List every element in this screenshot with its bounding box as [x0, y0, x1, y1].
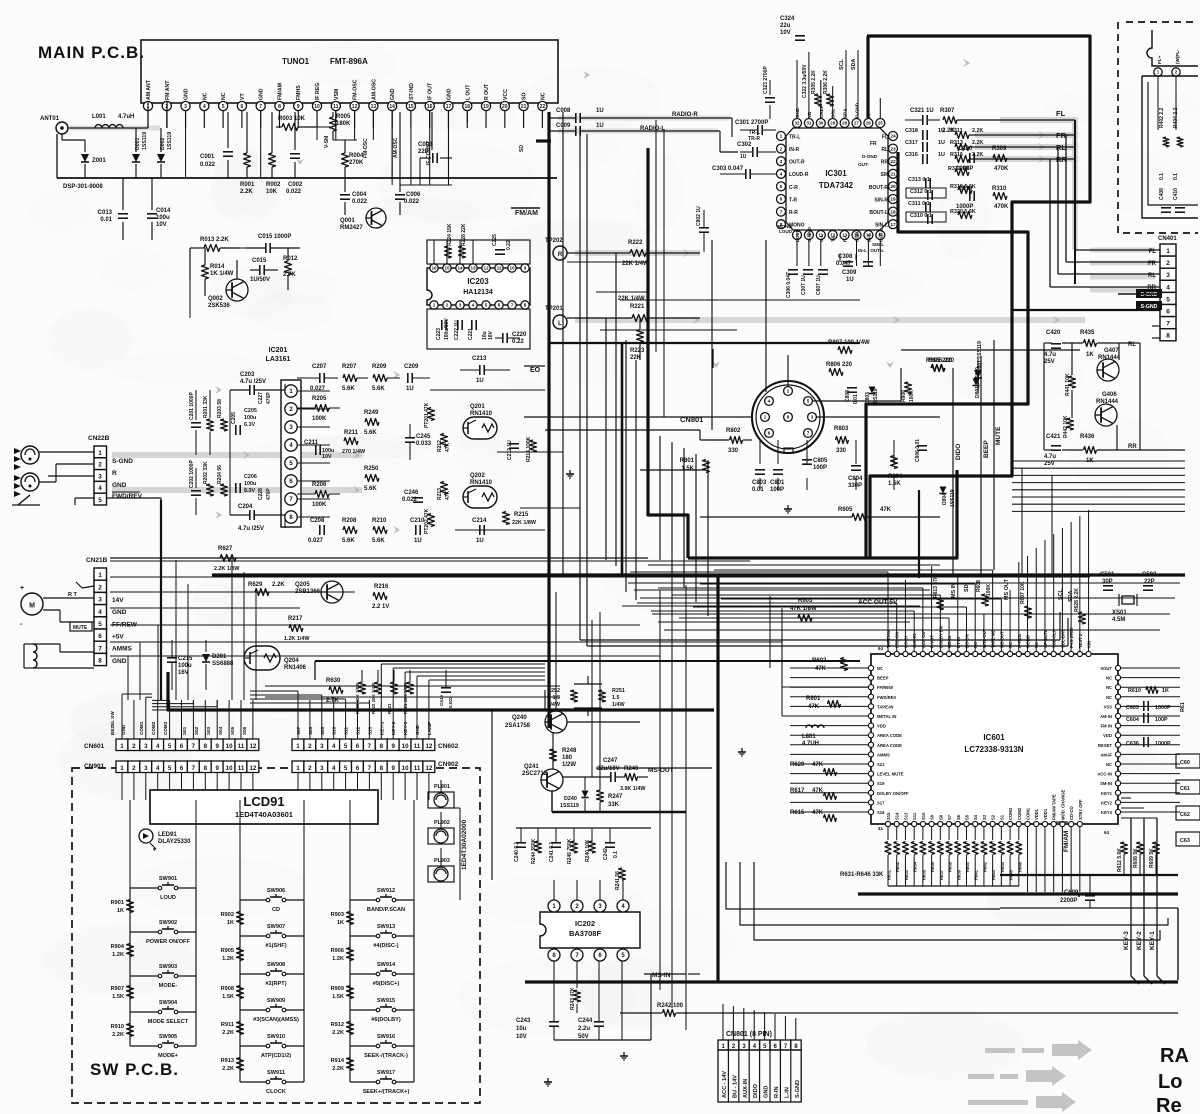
svg-text:Z001: Z001 — [92, 158, 106, 164]
svg-text:S19: S19 — [877, 781, 885, 786]
svg-text:COM2: COM2 — [1017, 807, 1022, 820]
svg-text:Re: Re — [1156, 1095, 1182, 1114]
IC202 pin 8 — [548, 949, 560, 961]
capacitor C302 1U — [752, 147, 754, 157]
svg-text:NC: NC — [1106, 762, 1112, 767]
wire CN901 to switch rails — [129, 800, 131, 888]
svg-text:5: 5 — [1166, 296, 1170, 303]
svg-text:FM/AM: FM/AM — [515, 210, 538, 217]
svg-text:S16: S16 — [877, 810, 885, 815]
svg-text:5: 5 — [344, 765, 348, 772]
highlight arrows misc — [583, 71, 590, 79]
IC203 pin 7 — [508, 301, 516, 309]
inductor L801 4.7UH — [806, 725, 824, 728]
svg-text:1.5K: 1.5K — [888, 481, 901, 487]
resistor R911 2.2K — [237, 1022, 244, 1035]
svg-text:FR: FR — [1056, 131, 1067, 140]
capacitor C015 1000P — [265, 243, 267, 253]
IC601 bottom pin S6 — [955, 821, 960, 826]
capacitor C309 1U — [843, 261, 853, 263]
svg-text:14V: 14V — [112, 597, 124, 604]
svg-text:100K: 100K — [312, 502, 327, 508]
capacitor C214 1U — [479, 525, 481, 535]
wire thick trunk y558 — [688, 470, 957, 558]
IC301 pin 21 — [889, 169, 898, 178]
wire CN602 riser elbows — [297, 691, 299, 700]
svg-text:GND: GND — [390, 88, 396, 100]
IC301 pin 4 LOUD-R — [777, 169, 786, 178]
resistor R014 1K 1/4W — [202, 265, 209, 279]
svg-text:24: 24 — [890, 134, 896, 140]
svg-text:R012: R012 — [283, 256, 298, 262]
diode D801 1SS119 — [973, 379, 980, 386]
svg-text:FM/AM TAPE: FM/AM TAPE — [1052, 794, 1057, 820]
resistor R628 2.2K — [1079, 612, 1086, 624]
svg-text:2.7K: 2.7K — [283, 272, 296, 278]
capacitor C213 1U — [479, 365, 481, 375]
svg-text:2: 2 — [308, 765, 312, 772]
CN801 pin 3 — [808, 413, 817, 422]
wire MS lines bottom — [644, 973, 686, 975]
IC301 pin 32 — [793, 119, 802, 128]
capacitor C247 22u/10V — [610, 772, 612, 782]
capacitor C241 0.1 — [551, 842, 561, 844]
svg-text:1/2W: 1/2W — [562, 762, 576, 768]
svg-text:1.2K: 1.2K — [112, 952, 124, 958]
lamp PL901 — [428, 792, 454, 808]
svg-text:IN-R: IN-R — [789, 147, 800, 153]
IC203 pin 9 — [521, 264, 529, 272]
svg-text:2.2K: 2.2K — [332, 1066, 344, 1072]
capacitor C220 0.22 — [502, 333, 504, 343]
svg-text:IF REG: IF REG — [315, 83, 321, 100]
capacitor C015 1u/50V — [259, 265, 261, 275]
svg-text:12: 12 — [249, 743, 256, 750]
IC601 bottom pin S8 — [938, 821, 943, 826]
svg-text:R003 10K: R003 10K — [278, 116, 306, 122]
resistor R242 100 — [663, 1010, 676, 1017]
svg-text:16V: 16V — [488, 330, 494, 340]
wire RL — [969, 146, 1075, 148]
capacitor C209 1U — [407, 373, 409, 383]
svg-text:R61: R61 — [1180, 702, 1186, 712]
svg-text:2: 2 — [132, 765, 136, 772]
svg-text:9: 9 — [215, 765, 219, 772]
capacitor C308 0.047 — [863, 261, 873, 263]
IC601 bottom pin S5 — [964, 821, 969, 826]
svg-text:C408: C408 — [1159, 188, 1165, 200]
switch SW904 MODE SELECT — [130, 1011, 160, 1013]
svg-text:0.033: 0.033 — [416, 441, 432, 447]
svg-text:R013 2.2K: R013 2.2K — [200, 237, 229, 243]
resistor R223 22K — [637, 330, 644, 343]
svg-text:R: R — [558, 252, 563, 258]
capacitor C212 1U — [509, 443, 519, 445]
svg-text:C636: C636 — [1126, 741, 1139, 747]
wires into CN401 — [1075, 249, 1160, 251]
svg-text:R642: R642 — [982, 861, 987, 872]
svg-text:R441 10K: R441 10K — [1065, 373, 1071, 396]
svg-text:KEY1: KEY1 — [1101, 791, 1113, 796]
svg-text:4: 4 — [332, 765, 336, 772]
svg-text:C214: C214 — [472, 518, 487, 524]
svg-text:R620: R620 — [790, 762, 805, 768]
svg-text:R240 10K: R240 10K — [585, 839, 591, 862]
resistor R807 100 1/4W — [838, 347, 852, 354]
svg-text:2: 2 — [98, 462, 102, 469]
svg-text:S01: S01 — [182, 726, 187, 735]
wire caps under CN801 — [759, 440, 761, 464]
svg-text:BOUT-R: BOUT-R — [869, 185, 889, 191]
capacitor C805 100P — [802, 459, 812, 461]
resistor R306 2.2K — [827, 94, 834, 106]
IC203 pin 1 — [430, 301, 438, 309]
resistor R821 10K 1/8W — [391, 682, 398, 694]
svg-text:11: 11 — [497, 266, 502, 271]
IC601 left pin METAL IN — [868, 713, 873, 718]
capacitor C801 100P — [773, 469, 783, 471]
svg-text:C307 1U: C307 1U — [801, 275, 807, 295]
svg-text:FM IN: FM IN — [1101, 724, 1112, 729]
IC601 top pin CO-DI — [903, 651, 908, 656]
svg-text:1: 1 — [98, 572, 102, 579]
tuner pin 8 FM/AM — [275, 101, 284, 110]
IC301 pin 10 — [804, 231, 813, 240]
IC601 top pin ACC OUT — [920, 651, 925, 656]
wire upper middle horizontals — [567, 261, 648, 263]
tuner pin 11 VSM — [331, 101, 340, 110]
capacitor C319 1000P + resistor R310 470K — [969, 191, 971, 201]
svg-text:FL+: FL+ — [1157, 55, 1162, 64]
wire KEY verticals — [1130, 818, 1132, 976]
IC601 right pin NC — [1115, 675, 1120, 680]
svg-text:1U: 1U — [476, 538, 484, 544]
svg-text:FL: FL — [1056, 109, 1066, 118]
capacitor C004 0.022 — [344, 185, 346, 192]
IC601 left pin AREA CODE — [868, 733, 873, 738]
tuner pin 13 AM-OSC — [369, 101, 378, 110]
svg-text:25: 25 — [878, 121, 883, 126]
svg-text:29: 29 — [830, 121, 835, 126]
resistor R222 22K 1/4W — [630, 250, 646, 257]
svg-text:FM-OSC: FM-OSC — [363, 138, 369, 158]
IC202 pin 6 — [594, 949, 606, 961]
svg-text:SD: SD — [519, 145, 525, 152]
IC601 left pin TAPE-IN — [868, 704, 873, 709]
svg-text:C316: C316 — [905, 152, 918, 158]
IC301 pin 23 — [889, 144, 898, 153]
svg-text:2.2K: 2.2K — [972, 128, 983, 134]
svg-text:CN801: CN801 — [680, 415, 703, 424]
svg-text:SW905: SW905 — [159, 1034, 177, 1040]
svg-text:1.5: 1.5 — [612, 695, 620, 701]
svg-text:12: 12 — [352, 104, 358, 110]
svg-text:R639: R639 — [956, 869, 961, 880]
svg-text:SW916: SW916 — [377, 1034, 395, 1040]
svg-text:SW913: SW913 — [377, 924, 395, 930]
svg-text:R633: R633 — [904, 869, 909, 880]
svg-text:1U: 1U — [938, 140, 945, 146]
highlight route antenna — [70, 126, 160, 131]
svg-text:R612 5.6K: R612 5.6K — [1117, 848, 1123, 872]
svg-text:2: 2 — [787, 389, 790, 394]
wire IC201 pin stubs right — [297, 390, 330, 392]
svg-text:C242: C242 — [603, 848, 609, 860]
resistor R204 56 — [221, 484, 228, 496]
switch SW901 LOUD — [130, 887, 160, 889]
resistor R003 10K — [282, 124, 298, 131]
net S-GND inverted labels — [1136, 289, 1162, 298]
wire FWD/REV thick vertical — [160, 500, 162, 700]
svg-text:22: 22 — [540, 104, 546, 110]
amp inner box — [1142, 76, 1198, 218]
svg-text:FWD/REV: FWD/REV — [112, 493, 143, 500]
svg-text:EO: EO — [530, 367, 541, 374]
svg-text:SW910: SW910 — [267, 1034, 285, 1040]
svg-text:Q240: Q240 — [512, 715, 527, 721]
switch SW912 BAND/P.SCAN — [350, 899, 378, 901]
IC601 right pin XOUT — [1115, 665, 1120, 670]
diode D001 1SS119 — [135, 128, 137, 152]
svg-text:1U: 1U — [414, 538, 422, 544]
svg-text:C207: C207 — [312, 364, 327, 370]
wire Q240 column — [552, 733, 554, 769]
svg-text:R241 56: R241 56 — [615, 871, 621, 890]
IC601 bottom pin COM2 — [1016, 821, 1021, 826]
wire R627 line thin — [110, 557, 648, 559]
svg-text:RN1410: RN1410 — [470, 480, 493, 486]
svg-text:C228: C228 — [258, 488, 264, 500]
IC601 top pin MB-IN — [946, 651, 951, 656]
svg-text:IC301: IC301 — [825, 169, 847, 178]
wire thick RR elbow — [866, 152, 1028, 557]
IC601 top pin VOL-CLK — [1051, 651, 1056, 656]
svg-text:R217: R217 — [288, 616, 303, 622]
svg-text:C604: C604 — [1126, 717, 1139, 723]
svg-text:3: 3 — [780, 159, 783, 165]
svg-text:C322 3.3u/50V: C322 3.3u/50V — [802, 64, 808, 98]
svg-text:SO: SO — [522, 93, 528, 101]
IC301 pin 13 — [840, 231, 849, 240]
right edge C6xx connector stubs — [1176, 754, 1200, 768]
IC601 left pin FWD/REV — [868, 694, 873, 699]
svg-text:#1(SHF): #1(SHF) — [265, 943, 286, 949]
switch SW911 CLOCK — [240, 1081, 268, 1083]
wire IC601 bottom right pin drops — [1027, 827, 1029, 892]
svg-text:2: 2 — [1166, 260, 1170, 267]
svg-text:C220: C220 — [512, 332, 527, 338]
svg-text:32: 32 — [795, 121, 800, 126]
svg-text:21: 21 — [890, 172, 896, 178]
svg-text:SDA: SDA — [843, 108, 848, 118]
svg-text:23: 23 — [890, 146, 896, 152]
svg-text:S10: S10 — [921, 812, 926, 820]
amp pin 1 FL+ — [1154, 68, 1162, 76]
IC601 top pin TAPE/AM — [885, 651, 890, 656]
svg-text:NC: NC — [1106, 685, 1112, 690]
ground near CN801 — [787, 505, 789, 509]
svg-text:5.6K: 5.6K — [364, 486, 377, 492]
svg-text:COM3: COM3 — [1008, 807, 1013, 820]
IC601 right pin KEY3 — [1115, 809, 1120, 814]
resistor R441 10K — [1069, 376, 1076, 388]
svg-text:R641: R641 — [974, 869, 979, 880]
svg-text:1SS119: 1SS119 — [142, 132, 148, 150]
svg-text:S15: S15 — [886, 812, 891, 820]
resistor R913 2.2K — [237, 1058, 244, 1071]
svg-text:3: 3 — [144, 765, 148, 772]
capacitor C616 0.022 — [441, 687, 451, 689]
svg-text:22K 1/4W: 22K 1/4W — [618, 296, 645, 302]
svg-text:2.2 1V: 2.2 1V — [372, 604, 389, 610]
svg-text:POWER ON/OFF: POWER ON/OFF — [146, 939, 190, 945]
switch SW905 MODE+ — [130, 1045, 160, 1047]
svg-text:C001: C001 — [200, 154, 215, 160]
IC601 left pin LEVEL MUTE — [868, 771, 873, 776]
svg-text:C225: C225 — [492, 234, 498, 246]
capacitor C003 22P — [431, 112, 433, 150]
svg-text:AMMS: AMMS — [112, 646, 133, 653]
resistor R305 2.2K — [815, 94, 822, 106]
IC601 bottom pin S14 — [894, 821, 899, 826]
wires CN601 pins up — [121, 700, 123, 739]
svg-text:1: 1 — [296, 743, 300, 750]
svg-text:1U: 1U — [596, 108, 604, 114]
svg-text:D002: D002 — [160, 137, 166, 150]
svg-text:6: 6 — [180, 743, 184, 750]
capacitor C808 0.01 — [847, 387, 857, 389]
svg-text:6.3V: 6.3V — [244, 422, 255, 428]
svg-text:12: 12 — [425, 765, 432, 772]
svg-text:0.1: 0.1 — [1159, 173, 1165, 180]
svg-text:NC: NC — [202, 92, 208, 100]
capacitor C210 1U — [415, 525, 417, 535]
resistor R912 2.2K — [347, 1022, 354, 1035]
svg-text:100P: 100P — [813, 465, 827, 471]
transistor Q001 RM2427 — [366, 208, 386, 228]
wire switch column rails — [349, 900, 351, 1082]
wire medium y343 — [550, 342, 860, 344]
svg-text:S17: S17 — [877, 800, 885, 805]
switch SW907 #1(SHF) — [240, 935, 268, 937]
svg-text:DLAY25330: DLAY25330 — [158, 839, 191, 845]
IC301 pin 3 OUT-R — [777, 157, 786, 166]
IC601 top pin VOL-DAT — [1060, 651, 1065, 656]
IC202 pin 1 — [548, 900, 560, 912]
svg-text:19: 19 — [890, 197, 896, 203]
svg-text:5: 5 — [98, 621, 102, 628]
IC202 pin 5 — [617, 949, 629, 961]
svg-text:RN1444: RN1444 — [1098, 355, 1121, 361]
svg-text:13: 13 — [371, 104, 377, 110]
svg-text:R242 100: R242 100 — [657, 1003, 684, 1009]
svg-text:R216: R216 — [374, 584, 389, 590]
svg-text:SW914: SW914 — [377, 962, 396, 968]
capacitor C604 100P — [1143, 713, 1145, 723]
resistor R211 270 1/4W — [344, 438, 358, 445]
IC601 left pin S21 — [868, 761, 873, 766]
resistor R002 10K — [269, 153, 276, 167]
svg-text:AM-OSC: AM-OSC — [371, 79, 377, 100]
svg-text:NC: NC — [1106, 676, 1112, 681]
svg-text:S3: S3 — [982, 814, 987, 820]
svg-text:100P: 100P — [770, 487, 784, 493]
switch SW906 CD — [240, 899, 268, 901]
svg-text:330P: 330P — [848, 483, 862, 489]
svg-text:7: 7 — [98, 645, 102, 652]
resistor R803 330 — [836, 437, 849, 444]
wire thick center vertical x648 — [648, 148, 688, 558]
svg-text:SW903: SW903 — [159, 964, 177, 970]
svg-text:47K: 47K — [880, 507, 892, 513]
test point TP202 R — [553, 246, 567, 260]
svg-text:R631-R646 33K: R631-R646 33K — [840, 872, 884, 878]
svg-text:R243 47K: R243 47K — [570, 987, 576, 1010]
resistor R203 58 — [221, 419, 228, 431]
IC601 top pin BT-IN — [955, 651, 960, 656]
svg-text:R213: R213 — [437, 488, 443, 500]
svg-text:5.6K: 5.6K — [364, 430, 377, 436]
svg-text:GND: GND — [112, 658, 127, 665]
svg-text:270K: 270K — [349, 160, 364, 166]
svg-text:VT: VT — [240, 93, 246, 100]
svg-text:R228 22K: R228 22K — [461, 223, 467, 246]
svg-text:0.022: 0.022 — [448, 696, 453, 708]
zener Z001 — [84, 140, 86, 152]
svg-text:8: 8 — [1166, 333, 1170, 340]
highlight route TP202 — [575, 250, 700, 256]
CN801 pin 1 — [761, 413, 770, 422]
svg-text:2.2K: 2.2K — [972, 140, 983, 146]
svg-text:SEEK-/(TRACK-): SEEK-/(TRACK-) — [364, 1053, 408, 1059]
svg-text:4: 4 — [1166, 284, 1170, 291]
IC202 pin 7 — [571, 949, 583, 961]
svg-text:4.7u: 4.7u — [1044, 454, 1056, 460]
svg-text:R316: R316 — [950, 152, 963, 158]
svg-text:R204 56: R204 56 — [217, 465, 223, 484]
svg-text:SD: SD — [964, 584, 970, 592]
svg-text:CLOCK: CLOCK — [266, 1089, 286, 1095]
legend arrow Lo — [968, 1074, 994, 1079]
svg-text:R224 15K: R224 15K — [447, 223, 453, 246]
resistor R217 1.2K 1/4W — [289, 625, 303, 632]
IC301 pin 11 — [816, 231, 825, 240]
resistor R903 1K — [347, 912, 354, 925]
svg-text:R249: R249 — [364, 410, 379, 416]
IC601 top pin TAPE MB — [990, 651, 995, 656]
IC301 pin 12 — [828, 231, 837, 240]
svg-text:9: 9 — [524, 266, 527, 271]
IC301 pin 15 — [864, 231, 873, 240]
svg-text:26: 26 — [866, 121, 871, 126]
svg-text:R634: R634 — [913, 861, 918, 872]
svg-text:7: 7 — [807, 431, 810, 436]
wire caps row frame — [516, 827, 651, 829]
svg-text:47K: 47K — [445, 490, 451, 500]
svg-text:17: 17 — [890, 222, 896, 228]
IC201 pin 8 — [285, 511, 297, 523]
capacitor C313 0.1 — [925, 178, 927, 188]
svg-text:4.7u: 4.7u — [1044, 352, 1056, 358]
svg-text:SCL: SCL — [839, 59, 845, 70]
capacitor C318 1U — [922, 130, 924, 140]
IC203 pin 14 — [456, 264, 464, 272]
IC301 pin 2 IN-R — [777, 144, 786, 153]
wire TP drop verticals — [605, 318, 607, 560]
svg-text:100u: 100u — [178, 663, 192, 669]
svg-text:4: 4 — [472, 303, 475, 308]
svg-text:S5: S5 — [964, 814, 969, 820]
